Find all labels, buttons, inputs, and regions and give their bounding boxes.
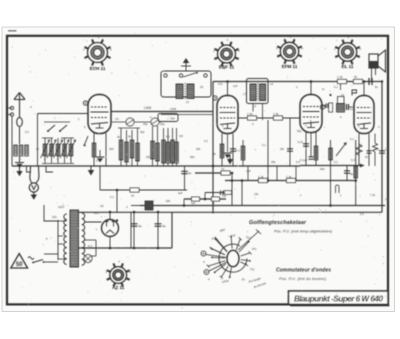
switch spoke s3	[241, 253, 251, 256]
svg-text:5k: 5k	[354, 75, 358, 79]
core dashes	[184, 83, 186, 99]
registration dash top-left	[8, 30, 17, 32]
svg-text:AZ 11: AZ 11	[112, 285, 125, 290]
svg-text:L9: L9	[253, 104, 257, 108]
svg-text:Pos. P.U. (met knop uitgetrokk: Pos. P.U. (met knop uitgetrokken)	[274, 230, 333, 234]
svg-text:C9: C9	[115, 117, 119, 121]
V1 cathode lead	[93, 133, 95, 166]
wire drop b	[276, 166, 278, 181]
switch spoke s2	[239, 242, 249, 252]
switch blade in box	[183, 73, 197, 78]
wire step left	[27, 166, 32, 172]
svg-text:0.1: 0.1	[96, 159, 100, 163]
secondary winding bumps	[82, 213, 85, 265]
cap on right vertical	[379, 151, 385, 153]
marker circle V3	[320, 105, 324, 109]
svg-text:1.2k: 1.2k	[337, 75, 343, 79]
svg-text:PO: PO	[252, 247, 257, 251]
cathode resistor box a	[192, 197, 200, 201]
zigzag on right	[373, 143, 378, 152]
switch spoke s4	[241, 260, 250, 261]
electrolytic 8uF a lead	[133, 212, 135, 248]
AVC wire	[195, 172, 232, 174]
V2 resistor	[220, 144, 224, 158]
svg-text:0.2: 0.2	[375, 147, 379, 151]
switch spoke s5	[240, 262, 246, 265]
antenna coil L2	[19, 145, 23, 156]
V2 lead b	[232, 134, 234, 167]
V3 top stub	[310, 82, 312, 95]
rectifier valve AZ11 symbol	[102, 220, 119, 237]
svg-text:V: V	[126, 205, 128, 209]
arrowhead	[360, 164, 364, 168]
osc coil A	[176, 84, 183, 99]
V1 grid leak lead	[105, 133, 107, 166]
bias wire upper	[205, 192, 232, 194]
T2 bottom lead	[252, 104, 254, 112]
wire left edge	[11, 116, 13, 166]
switch long spoke upper right	[238, 231, 259, 250]
band switch contact a	[48, 125, 55, 131]
second anode wire	[161, 114, 213, 116]
terminal circles left	[10, 106, 13, 109]
filter cap 4uF	[181, 171, 188, 173]
primary winding bumps	[64, 214, 67, 264]
grid arrow V1	[84, 136, 88, 146]
svg-text:L5: L5	[186, 100, 190, 104]
T2 coil B	[260, 84, 266, 101]
svg-text:50: 50	[128, 135, 132, 139]
svg-text:7.2k: 7.2k	[370, 193, 376, 197]
ground symbol antenna	[15, 163, 24, 168]
svg-text:0.1: 0.1	[334, 160, 338, 164]
rectifier bottom lead	[109, 237, 111, 249]
rectifier loop top wire	[78, 211, 172, 213]
svg-text:1.2k: 1.2k	[258, 175, 264, 179]
svg-text:220: 220	[52, 215, 57, 219]
switch spoke s6	[230, 267, 232, 277]
V1 ground	[96, 157, 105, 162]
wire switch row	[44, 121, 70, 123]
svg-text:S2: S2	[200, 85, 204, 89]
terminal	[179, 74, 182, 77]
svg-text:0.1: 0.1	[334, 85, 338, 89]
wire to ground	[19, 156, 21, 162]
secondary lead heater b	[85, 255, 96, 257]
svg-text:0.1: 0.1	[166, 135, 170, 139]
svg-text:1M: 1M	[179, 134, 184, 138]
HT rail lower	[140, 205, 385, 207]
svg-text:25p: 25p	[143, 122, 148, 126]
cathode wire	[184, 198, 226, 200]
heater vertical	[95, 240, 97, 256]
plug leads curved	[30, 166, 39, 183]
schematic border frame	[7, 36, 388, 305]
frame stub b	[7, 114, 12, 116]
secondary lead top	[81, 212, 83, 213]
band coil L7	[64, 138, 66, 163]
rectifier top lead	[109, 212, 111, 220]
chassis arrow left	[19, 166, 21, 171]
pickup terminal b	[204, 270, 209, 275]
title box	[289, 291, 389, 304]
tube socket ECH11 base diagram	[83, 35, 112, 70]
band coil L4	[44, 138, 46, 163]
V2 ground	[227, 134, 229, 152]
svg-text:0.3: 0.3	[204, 139, 208, 143]
V2 bias resistor	[242, 140, 244, 166]
resistor 7.2k	[287, 178, 296, 182]
svg-text:L6: L6	[341, 93, 345, 97]
pickup terminal a	[201, 251, 206, 256]
tube socket EFM11 base diagram	[276, 35, 303, 68]
V4 lead a	[358, 134, 360, 167]
pilot lamp	[84, 255, 92, 263]
rectifier marker dot	[116, 219, 118, 221]
svg-text:Golflengteschakelaar: Golflengteschakelaar	[249, 220, 307, 226]
svg-text:L548: L548	[170, 107, 176, 111]
svg-text:L548: L548	[144, 106, 151, 110]
resistor box 1M/2M	[158, 114, 178, 122]
tone capacitor	[344, 171, 350, 173]
osc wire t2	[157, 126, 159, 166]
switch spoke s1	[236, 239, 240, 250]
scan speckle texture	[11, 33, 390, 309]
switch spoke s13	[216, 239, 227, 252]
svg-text:25k: 25k	[271, 160, 276, 164]
coil bank top wire	[42, 137, 53, 139]
V4 zigzag resistor	[356, 144, 362, 155]
speaker wires	[371, 68, 373, 82]
frame stub a	[7, 107, 12, 109]
coupling cap pair	[326, 104, 328, 109]
band switch contact b	[60, 125, 67, 131]
antenna coil L3	[25, 145, 29, 156]
osc resistor r4	[137, 128, 139, 166]
filter loop wire	[338, 97, 345, 104]
IF secondary drop wire	[267, 120, 269, 181]
V2 lead a	[221, 134, 223, 167]
wire drop a	[247, 166, 249, 181]
svg-text:1.2: 1.2	[385, 147, 389, 151]
diode load wire	[289, 118, 291, 166]
V2 cap 0.1	[230, 149, 236, 151]
switch spoke s8	[215, 264, 226, 272]
IF resistor m2	[172, 128, 174, 166]
mains tilde	[28, 257, 34, 260]
svg-text:70: 70	[221, 167, 225, 171]
electrodes of V3 EFM11	[303, 107, 320, 128]
svg-text:30p: 30p	[140, 130, 145, 134]
smoothing vertical b	[116, 190, 118, 212]
secondary lead heater a	[85, 239, 96, 241]
svg-text:1.3k: 1.3k	[273, 112, 279, 116]
switch spoke s9	[208, 261, 225, 266]
V3 lead a	[305, 133, 307, 167]
resistor 1.5k b	[274, 116, 283, 120]
svg-text:B+: B+	[375, 85, 379, 89]
tube socket EBF11 base diagram	[213, 38, 240, 71]
svg-text:2M: 2M	[146, 155, 151, 159]
terminal	[204, 74, 207, 77]
mains wires	[44, 253, 58, 255]
svg-text:50p: 50p	[297, 129, 302, 133]
electrodes of V4 EL11	[357, 108, 372, 129]
V2 top stub	[227, 82, 229, 96]
screen bus wire	[225, 180, 356, 182]
IF resistor m3	[176, 128, 178, 166]
electrodes of V2 EBF11	[220, 108, 236, 129]
V3 screen drop wire	[330, 140, 332, 206]
tube envelope V2 EBF11	[217, 96, 238, 134]
switch spoke s11	[211, 248, 225, 254]
T2 coil A	[250, 84, 256, 101]
svg-text:30: 30	[117, 135, 121, 139]
electrolytic 8uF a	[131, 224, 138, 226]
tube socket AZ11 base diagram	[105, 259, 131, 291]
svg-text:P: P	[46, 237, 48, 241]
band coil L5	[51, 138, 53, 163]
svg-text:5k: 5k	[350, 172, 354, 176]
svg-text:0.1: 0.1	[350, 137, 354, 141]
wire drop c	[295, 166, 297, 181]
right edge vertical wire	[381, 82, 383, 213]
T2 core dashes	[257, 83, 259, 101]
choke on HT	[145, 201, 153, 210]
svg-text:0.5: 0.5	[360, 212, 364, 216]
secondary lead to rectifier	[85, 221, 102, 223]
tube envelope V1 ECH11	[88, 95, 111, 134]
svg-text:25p: 25p	[160, 122, 165, 126]
svg-text:2M: 2M	[171, 116, 176, 120]
svg-text:AZ1: AZ1	[94, 211, 99, 215]
osc wire t1	[152, 126, 154, 166]
V4 screen drop wire	[355, 140, 357, 206]
bus cap	[369, 78, 372, 85]
switch spoke s7	[221, 266, 228, 277]
wire to V1 grid	[38, 113, 89, 115]
svg-text:12k: 12k	[222, 194, 227, 198]
wire step right	[46, 166, 53, 172]
tone cap wire	[346, 166, 348, 181]
AVC vertical wire	[231, 173, 233, 206]
mains transformer core	[70, 210, 79, 267]
V1 resistor	[92, 143, 96, 157]
resistor 1k	[130, 188, 139, 192]
svg-text:Blaupunkt -Super 6 W 640: Blaupunkt -Super 6 W 640	[294, 294, 383, 303]
HT rail lower second	[172, 211, 382, 213]
osc resistor r1	[120, 128, 122, 166]
band coil L6	[57, 138, 59, 163]
svg-text:50: 50	[16, 262, 23, 268]
svg-text:0.1: 0.1	[262, 143, 266, 147]
resistor 1.2k	[259, 178, 268, 182]
svg-text:0.1μF: 0.1μF	[300, 158, 307, 162]
svg-text:Pos. P.U. (tiré du bouton): Pos. P.U. (tiré du bouton)	[279, 277, 327, 281]
terminal	[164, 74, 167, 77]
cap bars right	[347, 104, 349, 110]
smoothing line	[100, 189, 187, 191]
svg-text:50: 50	[365, 155, 368, 159]
vertical feed wire	[130, 212, 132, 248]
padder trimmer C1	[126, 118, 134, 126]
rail stub left	[131, 205, 145, 207]
V3 resistor	[314, 146, 318, 160]
tone arrow	[336, 143, 346, 156]
wire output bus with arrow	[300, 165, 364, 167]
marker circle V2	[213, 96, 217, 100]
svg-text:7.2k: 7.2k	[286, 175, 292, 179]
svg-text:0.5: 0.5	[296, 160, 300, 164]
left section vertical wire	[212, 82, 214, 214]
svg-text:1k: 1k	[131, 194, 135, 198]
mains switch blade	[33, 260, 43, 263]
tuning line	[37, 114, 39, 167]
grid row wire	[112, 121, 161, 123]
svg-text:0.01: 0.01	[298, 140, 304, 144]
rectifier loop right wire	[171, 212, 173, 248]
electrodes of V1 ECH11	[91, 107, 109, 128]
primary collector wire	[57, 220, 59, 260]
svg-text:4μF: 4μF	[178, 191, 183, 195]
svg-text:25k: 25k	[196, 147, 201, 151]
plug ground arrow	[33, 192, 35, 194]
svg-text:EBF 11: EBF 11	[219, 65, 235, 70]
filter cap 4uF lead	[184, 166, 186, 190]
svg-text:A: A	[30, 105, 32, 109]
V3 cap 0.1uF	[309, 157, 314, 159]
V3 cap 0.01	[303, 144, 309, 146]
plug connector circle	[29, 183, 38, 192]
warning triangle 50	[11, 254, 28, 269]
svg-text:50k: 50k	[320, 167, 325, 171]
band coil L8	[70, 138, 72, 163]
padder trimmer C2	[151, 118, 159, 126]
antenna	[14, 93, 25, 118]
tube socket EL11 base diagram	[334, 36, 361, 69]
speaker transformer	[369, 54, 378, 68]
bias resistor small	[225, 191, 232, 195]
resistor on V4 drop	[354, 166, 358, 178]
rotary wave-change switch hub	[227, 250, 239, 266]
tube envelope V4 EL11	[354, 96, 374, 134]
AVC vertical wire b	[241, 181, 243, 206]
svg-text:EFM 11: EFM 11	[282, 64, 298, 69]
svg-text:1nF: 1nF	[246, 169, 251, 173]
coil bank bottom wire	[42, 163, 74, 165]
rectifier loop bottom wire	[78, 247, 172, 249]
speaker horn	[378, 50, 386, 72]
oscillator coil assembly box	[161, 71, 211, 97]
oscillator arrow terminal	[185, 60, 187, 71]
grid coil filter	[337, 104, 345, 113]
resistor 70	[221, 171, 230, 175]
resistor on HT bus b	[354, 79, 363, 83]
IF transformer T2 box	[247, 79, 269, 104]
junction dots	[212, 165, 215, 168]
wire antenna down	[19, 127, 21, 144]
coil stub	[340, 82, 342, 91]
osc resistor r3	[131, 130, 133, 166]
resistor 1.5k a	[248, 116, 257, 120]
IF resistor m1	[167, 128, 169, 166]
osc coil B	[187, 84, 194, 99]
chassis arrow below V1	[90, 166, 92, 170]
cathode cluster verticals	[183, 199, 185, 206]
bias cap	[221, 191, 224, 196]
electrolytic 8uF b	[155, 224, 162, 226]
svg-text:8μ: 8μ	[139, 224, 143, 228]
svg-text:0.1: 0.1	[236, 149, 240, 153]
electrolytic 8uF b lead	[157, 212, 159, 248]
switch spoke s12	[216, 239, 227, 252]
wire V1 anode to oscillator section	[111, 111, 214, 113]
V4 cathode cap	[367, 151, 372, 153]
svg-text:L2: L2	[36, 147, 39, 151]
svg-text:0.3: 0.3	[351, 158, 355, 162]
switch spoke s10	[212, 256, 225, 259]
antenna coupling coil	[17, 117, 23, 126]
IF resistor m0	[163, 128, 165, 166]
svg-text:L8: L8	[270, 82, 273, 86]
V3 lead b	[315, 133, 317, 167]
resistor on V3 drop	[329, 148, 333, 160]
svg-text:12k: 12k	[254, 192, 259, 196]
V4 lead b	[368, 134, 370, 167]
svg-text:Commutateur d'ondes: Commutateur d'ondes	[276, 268, 331, 274]
svg-text:300: 300	[109, 147, 114, 151]
cathode resistor box b	[212, 197, 220, 201]
rotary switch arc	[219, 244, 247, 272]
mains cord wire	[44, 205, 58, 221]
hook terminal	[336, 185, 340, 193]
switch spoke s14	[211, 248, 225, 254]
svg-text:1.5k: 1.5k	[247, 112, 253, 116]
svg-text:1nF: 1nF	[233, 84, 238, 88]
svg-text:ECH 11: ECH 11	[90, 66, 106, 71]
tube envelope V3 EFM11	[300, 95, 322, 133]
wire coupling	[322, 105, 326, 107]
svg-text:6,3: 6,3	[88, 244, 92, 248]
svg-text:50k: 50k	[190, 155, 195, 159]
svg-text:470: 470	[218, 82, 223, 86]
osc resistor r2	[126, 130, 128, 166]
flag symbol	[352, 90, 357, 96]
wire diode row	[238, 117, 300, 119]
svg-text:4μ: 4μ	[188, 171, 192, 175]
svg-text:4μF: 4μF	[191, 201, 196, 205]
switch spoke s0	[231, 237, 232, 249]
resistor on HT bus a	[338, 79, 347, 83]
cap in diode load	[287, 149, 293, 151]
antenna coil L1	[14, 145, 18, 156]
marker circle V1	[83, 101, 87, 105]
svg-text:EL 11: EL 11	[342, 64, 354, 69]
chassis bus wire	[12, 165, 300, 167]
primary tap wires	[58, 220, 67, 222]
svg-text:0.5: 0.5	[25, 130, 29, 134]
svg-text:AZ: AZ	[100, 204, 104, 208]
chassis arrow below V2	[229, 155, 231, 159]
svg-text:8μ: 8μ	[163, 224, 167, 228]
V4 top stub	[363, 82, 365, 96]
padder wire row	[118, 127, 140, 129]
svg-text:L7: L7	[243, 92, 246, 96]
svg-text:1nF: 1nF	[350, 107, 355, 111]
resistor box on V3 drop	[329, 103, 333, 112]
HT bus wire (top, right half)	[213, 81, 382, 83]
svg-text:0.1: 0.1	[110, 195, 114, 199]
